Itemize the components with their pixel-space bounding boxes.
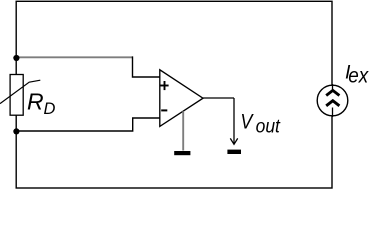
current source Iex (lower chevron) — [326, 101, 339, 106]
op-amp U1 (triangle) — [160, 70, 203, 127]
current source Iex (upper chevron) — [326, 90, 339, 95]
op-amp - input marking — [161, 109, 167, 111]
svg-text:D: D — [44, 100, 56, 118]
resistor RD (body) — [10, 75, 23, 116]
op-amp + input marking — [160, 81, 168, 90]
wire: gray wire from node A to non-inverting input step — [16, 56, 132, 58]
wire: Vout arrow shaft — [233, 98, 235, 144]
resistor RD (variability diagonal stroke) — [0, 80, 40, 103]
wire: stub inside circle above upper chevron — [332, 84, 334, 91]
current source Iex (circle) — [317, 85, 348, 116]
wire: step down into op-amp + input — [133, 56, 160, 77]
wire: outer circuit loop (top, left, right, bottom rails) — [16, 1, 332, 188]
wire: from node B to inverting input step — [16, 118, 160, 131]
node B (junction dot, bottom of resistor) — [13, 128, 19, 134]
wire: stub inside circle below lower chevron — [332, 108, 334, 118]
node A (junction dot, top of resistor) — [13, 55, 19, 61]
ground (Vout reference bar) — [227, 150, 241, 154]
wire: gray stub from op-amp bottom edge to ground — [182, 111, 184, 150]
svg-text:out: out — [256, 116, 282, 138]
svg-text:R: R — [27, 89, 44, 115]
wire: op-amp output — [203, 97, 234, 99]
svg-text:ex: ex — [348, 64, 369, 88]
svg-text:V: V — [240, 109, 254, 133]
ground (op-amp reference bar) — [174, 151, 190, 155]
Vout arrowhead — [230, 138, 237, 144]
